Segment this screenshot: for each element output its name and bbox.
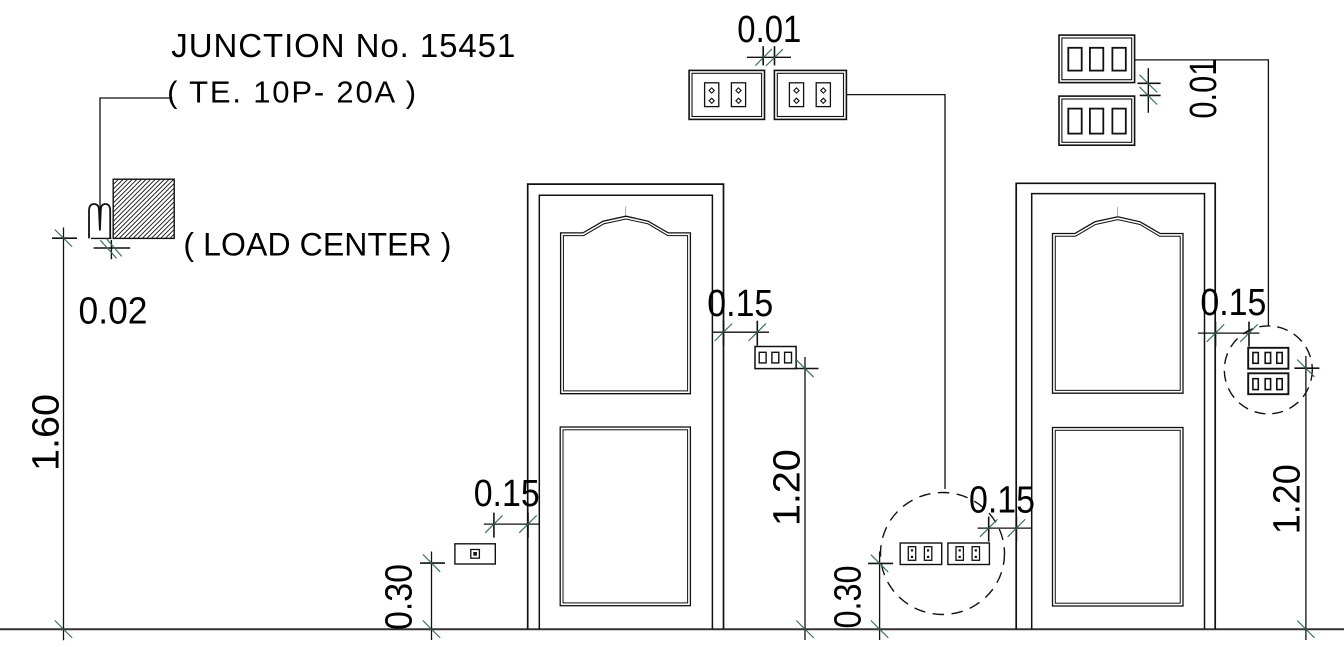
dimension 1.20 left line: [804, 357, 806, 640]
dimension 0.01 top-middle line: [747, 56, 791, 58]
dimension 0.15 circle3 line: [1198, 332, 1260, 334]
dimension 0.15 circle2 tick at door edge: [1015, 517, 1017, 542]
door D1 lower panel inner line: [563, 430, 688, 603]
dimension 1.60 top tick: [52, 237, 77, 239]
door leaf D2: [1032, 194, 1205, 629]
door leaf D1: [539, 195, 712, 629]
svg-text:0.01: 0.01: [737, 9, 801, 51]
dimension 0.01 right line: [1147, 68, 1149, 113]
load center hatched box: [53, 178, 235, 240]
svg-text:1.20: 1.20: [766, 449, 808, 526]
outlet plate O4 (3-gang, in circle C3 upper): [1248, 348, 1288, 369]
dimension 0.01 right tick slashes: [1140, 75, 1158, 93]
junction box symbol: [89, 204, 110, 238]
door frame D2 outer: [1016, 183, 1215, 629]
svg-text:0.15: 0.15: [969, 480, 1035, 522]
switch S1 (2-gang rocker, top middle left): [689, 70, 764, 119]
dimension 0.15 circle3 tick at plate: [1248, 322, 1250, 347]
dimension 0.15 circle3 tick at door edge: [1215, 322, 1217, 347]
svg-text:JUNCTION No. 15451: JUNCTION No. 15451: [171, 27, 515, 64]
dimension 0.01 top-middle extension lines: [762, 46, 764, 65]
door D2 lower panel outer: [1053, 428, 1184, 607]
switch plate S4 (3-gang, top right lower): [1059, 96, 1135, 145]
svg-text:0.30: 0.30: [828, 566, 870, 629]
arch apex mark door D1: [624, 207, 626, 216]
dimension 1.60 bottom tick: [55, 621, 72, 638]
dimension 0.15 left-outlet line: [484, 523, 540, 525]
dimension 0.15 door1-right tick at door edge: [723, 321, 725, 346]
door D2 upper panel inner line: [1055, 220, 1180, 391]
wire from switch S2 to outlet circle 2: [846, 95, 945, 489]
door D1 upper panel inner line: [563, 219, 687, 391]
dashed detail circle C2: [881, 493, 1005, 615]
outlet O1 (single, left of door D1, 0.30m): [455, 544, 495, 564]
svg-text:0.15: 0.15: [474, 473, 540, 515]
svg-text:1.60: 1.60: [26, 394, 68, 471]
dimension 1.20 left bottom tick: [796, 621, 813, 638]
svg-text:( TE. 10P- 20A ): ( TE. 10P- 20A ): [167, 74, 416, 109]
switch plate S3 (3-gang, top right upper): [1059, 35, 1135, 83]
dimension 0.30 left top tick: [420, 562, 445, 564]
dimension 0.15 circle2 tick at outlet: [988, 517, 990, 542]
wire leader from TE text to junction box: [100, 98, 172, 222]
dimension 1.20 right top tick: [1294, 367, 1319, 369]
dimension 0.01 right extension lines: [1137, 82, 1160, 84]
svg-text:1.20: 1.20: [1267, 464, 1309, 534]
arch apex mark door D2: [1116, 207, 1118, 216]
dimension 0.30 left bottom tick: [423, 621, 440, 638]
svg-text:( LOAD CENTER ): ( LOAD CENTER ): [183, 227, 451, 263]
dimension 0.15 left-outlet tick at outlet: [493, 513, 495, 538]
dimension 0.15 door1-right line: [712, 331, 769, 333]
door D2 lower panel inner line: [1055, 430, 1180, 603]
svg-text:0.15: 0.15: [1200, 282, 1266, 324]
dimension 0.30 right top tick: [868, 562, 893, 564]
ground line: [0, 628, 1344, 630]
dimension 0.02 ticks under junction box: [91, 238, 130, 259]
wire from switch plate S3 to outlet circle 3: [1135, 60, 1269, 326]
dashed detail circle C3: [1224, 326, 1312, 414]
door D1 upper panel outer with arch: [561, 216, 691, 394]
dimension 0.15 circle2 line: [978, 527, 1031, 529]
dimension 0.30 right line: [879, 552, 881, 641]
dimension 0.30 left line: [431, 552, 433, 641]
door D2 upper panel outer with arch: [1053, 217, 1184, 393]
switch S2 (2-gang rocker, top middle right): [774, 70, 846, 119]
dimension 0.15 left-outlet tick at door edge: [527, 513, 529, 538]
svg-text:0.01: 0.01: [1183, 59, 1225, 119]
door D1 lower panel outer: [560, 427, 690, 606]
outlet O3 (duplex, in circle C2 right): [948, 543, 990, 565]
dimension 0.30 right bottom tick: [871, 621, 888, 638]
svg-text:0.02: 0.02: [79, 291, 148, 333]
svg-text:0.30: 0.30: [378, 564, 420, 630]
door frame D1 outer: [528, 184, 724, 629]
dimension 1.20 left top tick: [794, 368, 819, 370]
outlet plate O5 (3-gang, in circle C3 lower): [1248, 373, 1288, 394]
dimension 0.15 door1-right tick at plate: [756, 321, 758, 346]
dimension 0.01 top-middle tick slashes: [755, 49, 772, 66]
switch plate S5 (3-gang small, right of door D1): [755, 347, 796, 369]
dimension 1.20 right bottom tick: [1297, 621, 1314, 638]
outlet O2 (duplex, in circle C2 left): [900, 543, 942, 565]
dimension 1.20 right line: [1305, 356, 1307, 640]
dimension 1.60 line: [63, 228, 65, 641]
svg-text:0.15: 0.15: [707, 283, 773, 325]
